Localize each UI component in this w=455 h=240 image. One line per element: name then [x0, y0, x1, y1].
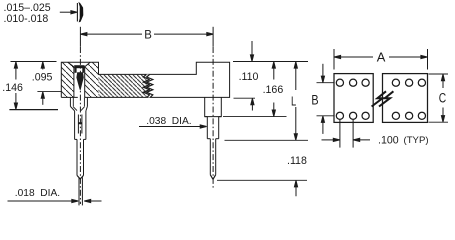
svg-text:(TYP): (TYP)	[404, 135, 429, 146]
right side reference lines	[233, 61, 308, 63]
svg-text:.100: .100	[378, 134, 399, 146]
extension line left (socket centerline)	[79, 27, 81, 47]
mid pin section	[76, 139, 78, 175]
right pin	[209, 139, 211, 175]
dim .166	[272, 62, 275, 117]
text .015-.025	[4, 2, 51, 14]
tube (.038 section)	[74, 111, 76, 139]
tail cross-section detail	[77, 2, 83, 23]
dim .095	[11, 62, 62, 105]
pin inside tube	[77, 115, 79, 134]
svg-text:C: C	[439, 90, 446, 106]
left wall hatch	[61, 62, 74, 97]
centerline right pin	[212, 47, 214, 190]
shell bore lines	[72, 97, 74, 106]
svg-text:.146: .146	[2, 82, 23, 94]
svg-text:A: A	[377, 50, 386, 65]
svg-text:.010‑.018: .010‑.018	[4, 13, 49, 25]
shell below body	[69, 97, 71, 106]
cavity walls	[73, 67, 75, 98]
dim .110	[250, 41, 254, 111]
svg-text:.018 DIA.: .018 DIA.	[15, 188, 60, 199]
label C	[439, 90, 446, 106]
band bottom continuation	[98, 73, 100, 75]
svg-text:L: L	[291, 95, 296, 109]
text .010-.018	[4, 13, 49, 25]
pin holes top row	[336, 79, 425, 86]
svg-text:B: B	[144, 27, 152, 41]
label .095	[32, 71, 53, 83]
shell crimp	[70, 106, 74, 111]
label .100 (TYP)	[378, 134, 429, 146]
dim A	[334, 49, 428, 70]
label A	[377, 50, 386, 65]
label B	[144, 27, 152, 41]
dim .018 DIA	[8, 199, 102, 202]
dim B (top view)	[317, 64, 335, 134]
socket body outline	[61, 62, 229, 97]
svg-text:B: B	[311, 92, 318, 108]
svg-text:.110: .110	[239, 71, 259, 83]
dim .146	[9, 62, 58, 110]
label .166	[263, 84, 284, 96]
break zigzag	[143, 74, 153, 97]
body band hatch	[99, 74, 148, 97]
contact clip	[74, 65, 84, 91]
leader .038 DIA	[139, 125, 207, 128]
centerline socket	[79, 47, 81, 204]
dim C	[429, 74, 449, 122]
dimension B (side view) line	[81, 33, 214, 36]
label .018 DIA	[15, 188, 60, 199]
leader arrow to tail detail	[60, 11, 78, 14]
label .118	[287, 155, 307, 167]
svg-text:.038 DIA.: .038 DIA.	[146, 116, 191, 127]
svg-text:.095: .095	[32, 71, 53, 83]
svg-text:.118: .118	[287, 155, 307, 167]
tail pin (.018)	[78, 177, 80, 205]
label B (top view)	[311, 92, 318, 108]
label .038 DIA	[146, 116, 191, 127]
label .110	[239, 71, 259, 83]
body left segment	[334, 74, 373, 123]
break symbol ZZ	[372, 91, 394, 106]
body right segment	[383, 74, 428, 123]
dim .118	[294, 181, 297, 197]
label L	[291, 95, 296, 109]
label .146	[2, 82, 23, 94]
pin holes bottom row	[336, 112, 425, 119]
right tube (.038)	[206, 117, 208, 139]
right wall hatch	[85, 62, 99, 97]
dim L	[294, 62, 297, 140]
svg-text:.166: .166	[263, 84, 284, 96]
socket entry chamfers	[68, 62, 74, 67]
right pin shoulder	[205, 97, 222, 116]
dim .100 TYP	[322, 120, 371, 148]
extension line right (pin centerline)	[212, 27, 214, 47]
